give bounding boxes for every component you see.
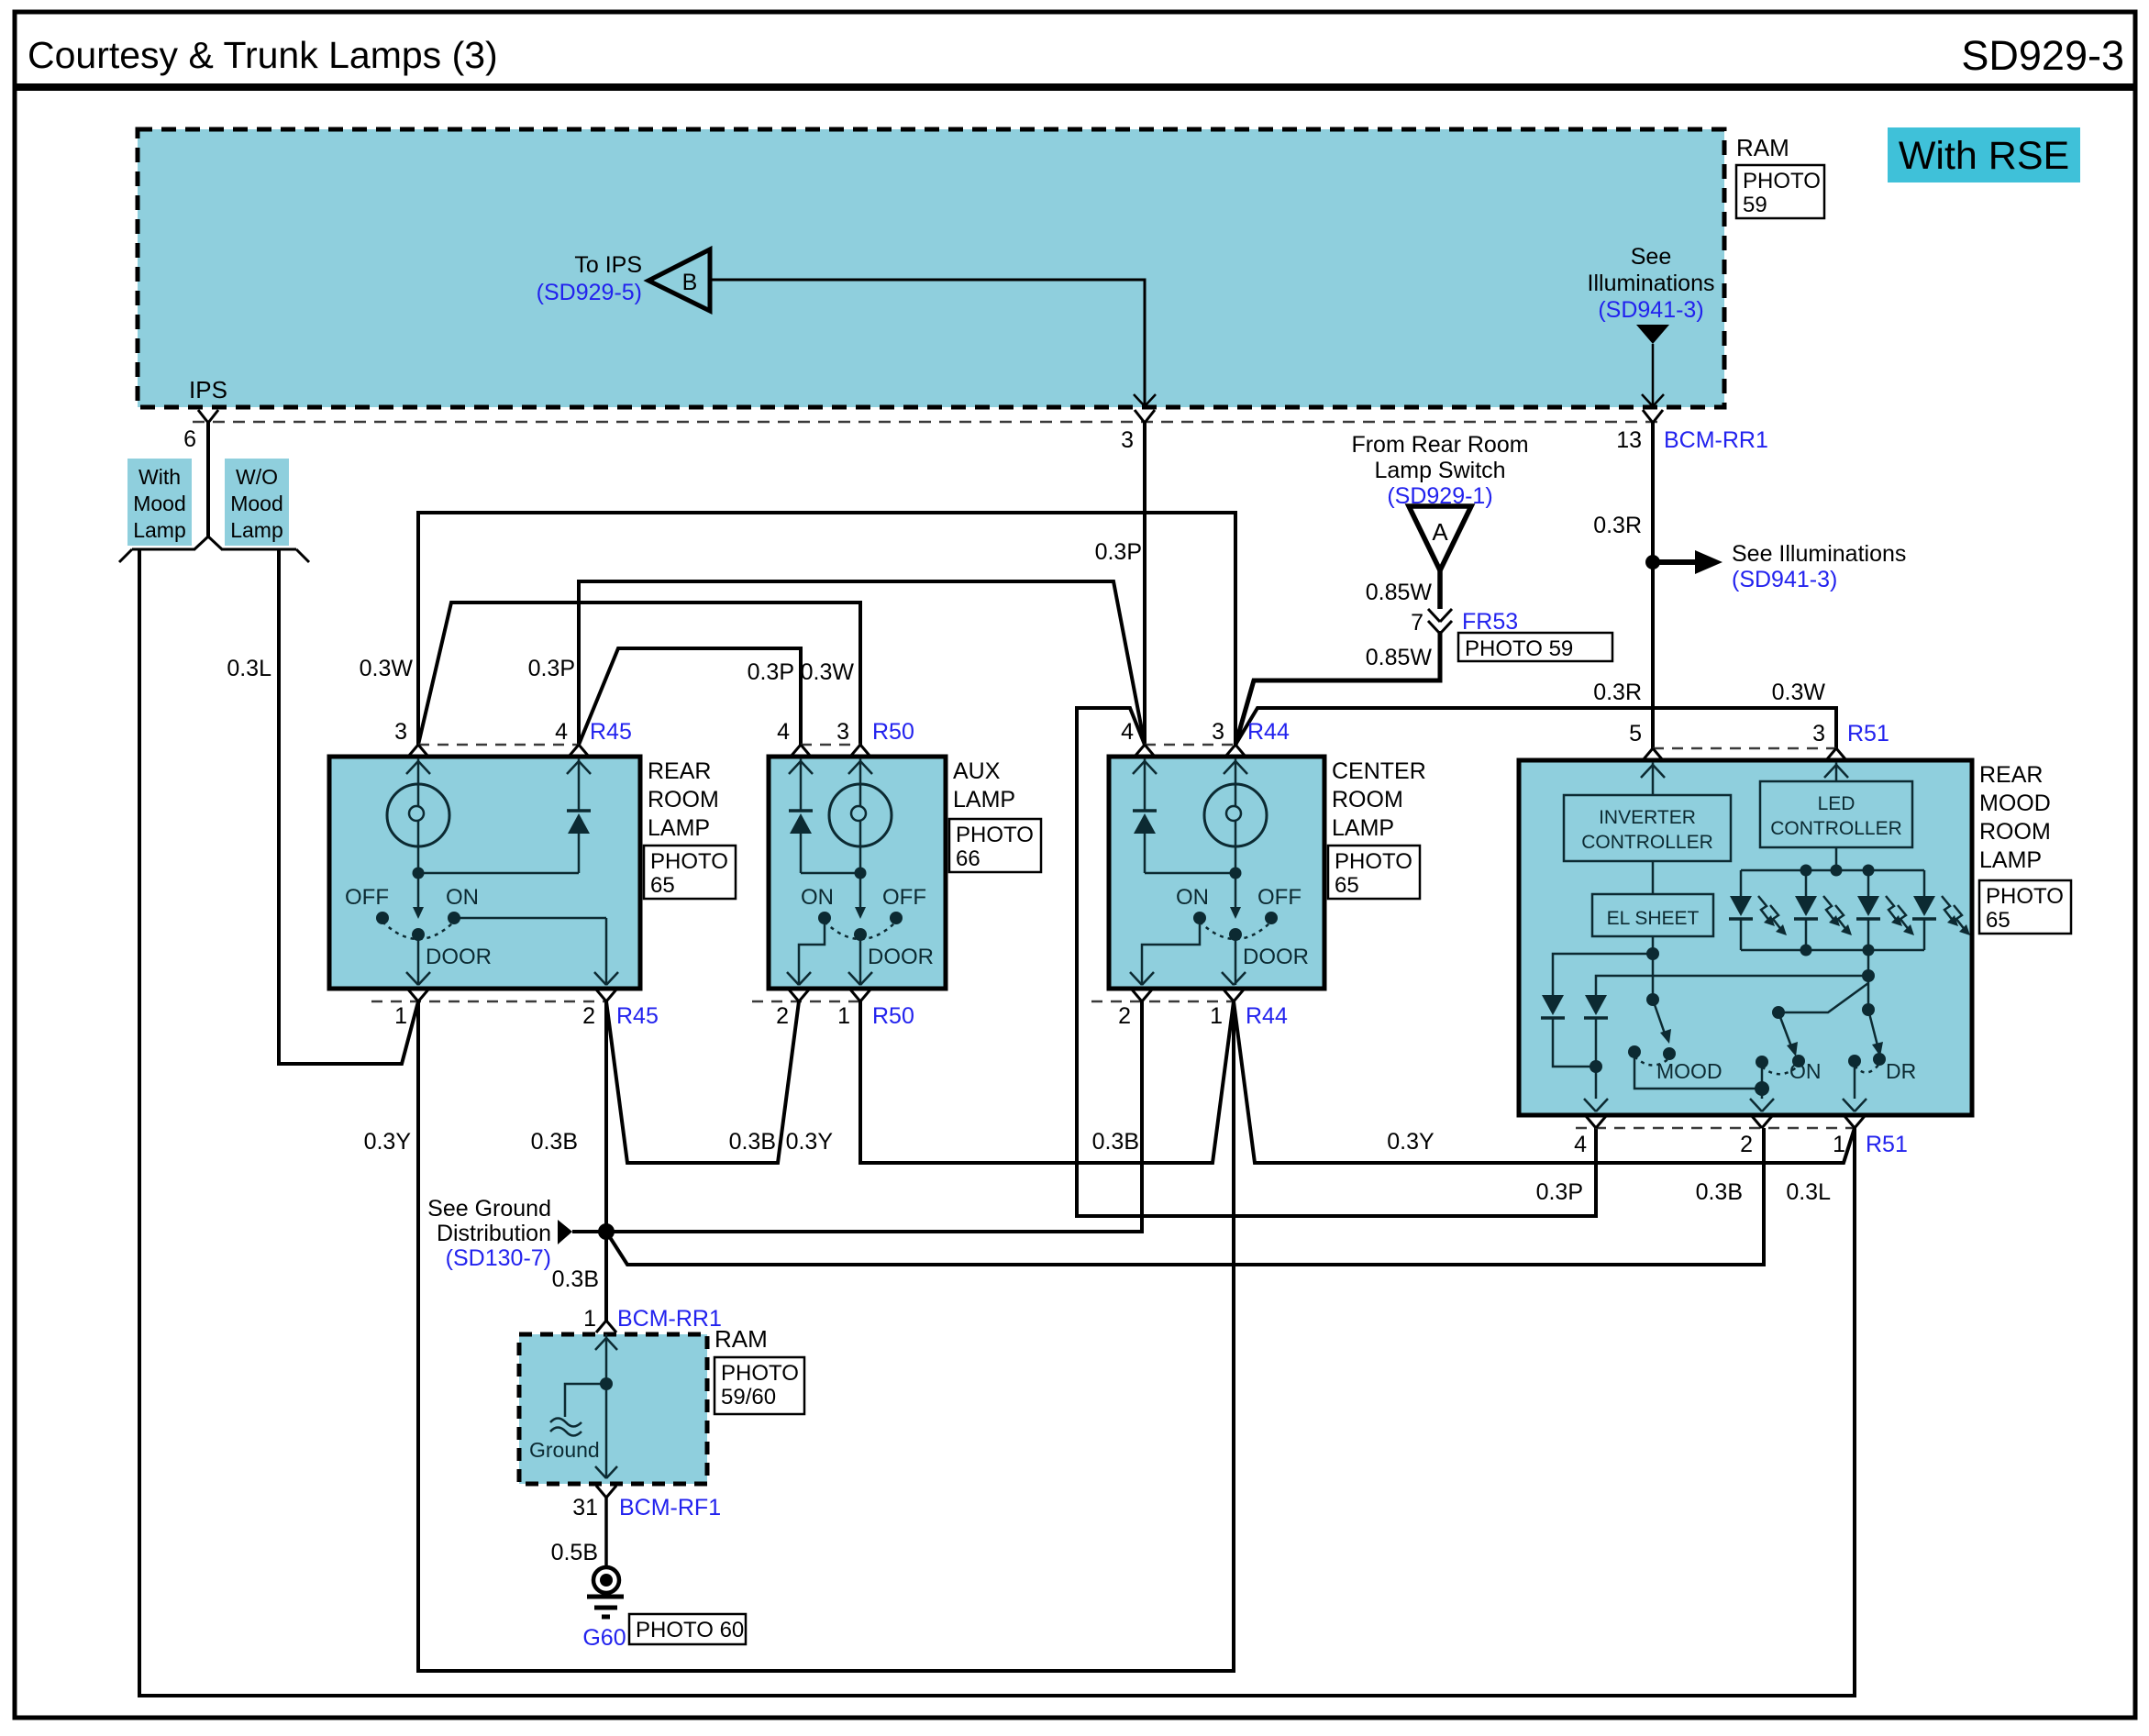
svg-text:Courtesy & Trunk Lamps (3): Courtesy & Trunk Lamps (3) xyxy=(28,34,498,76)
svg-text:EL SHEET: EL SHEET xyxy=(1607,908,1700,929)
svg-text:OFF: OFF xyxy=(882,885,926,910)
lamp CENTER ROOM LAMP (R44) xyxy=(1109,757,1426,989)
svg-text:3: 3 xyxy=(1121,427,1134,453)
svg-text:DOOR: DOOR xyxy=(1243,945,1309,969)
svg-text:R51: R51 xyxy=(1847,721,1889,746)
svg-text:5: 5 xyxy=(1629,721,1642,746)
svg-text:BCM-RR1: BCM-RR1 xyxy=(617,1306,722,1332)
switch DOOR AUX LAMP xyxy=(799,873,934,985)
connector BCM-RR1 pin 1 (top of ground box) xyxy=(595,1321,617,1350)
wire 0.3B R44 pin 2 to ground junction xyxy=(606,1001,1142,1232)
svg-text:SD929-3: SD929-3 xyxy=(1961,32,2124,79)
connector R45 bottom pins 1 and 2 xyxy=(371,972,659,1029)
svg-text:0.3B: 0.3B xyxy=(1092,1129,1139,1155)
svg-text:B: B xyxy=(682,270,698,295)
junction EL SHEET output xyxy=(1646,947,1659,960)
diode AUX LAMP xyxy=(789,758,860,873)
wire With Mood Lamp branch to R51 pin 1 (bottom 0.3L bus) xyxy=(139,549,1855,1696)
svg-text:0.3P: 0.3P xyxy=(1095,539,1142,565)
svg-text:ROOM: ROOM xyxy=(1979,819,2051,845)
LED array with controller buses xyxy=(1729,847,1970,956)
wire 0.3W R45 pin 3 to R44 pin 3 xyxy=(360,513,1235,745)
svg-text:See: See xyxy=(1631,244,1671,270)
switch DR xyxy=(1848,1003,1916,1099)
svg-text:R44: R44 xyxy=(1246,1003,1288,1029)
svg-text:R44: R44 xyxy=(1247,719,1290,745)
svg-text:DOOR: DOOR xyxy=(426,945,492,969)
svg-text:31: 31 xyxy=(572,1495,598,1520)
wire 0.3Y R45 pin 1 bottom bus to R44 pin 1 xyxy=(364,1001,1234,1671)
svg-text:1: 1 xyxy=(1833,1132,1845,1157)
bulb CENTER ROOM LAMP xyxy=(1204,758,1267,879)
svg-text:0.3W: 0.3W xyxy=(801,659,855,685)
arrow See Illuminations (SD941-3) right xyxy=(1653,541,1906,592)
svg-text:With: With xyxy=(138,465,181,489)
svg-text:(SD130-7): (SD130-7) xyxy=(446,1245,551,1271)
svg-text:OFF: OFF xyxy=(1257,885,1302,910)
module RAM (with IPS) dashed box xyxy=(138,129,1824,407)
svg-text:(SD941-3): (SD941-3) xyxy=(1732,567,1837,592)
svg-text:LED: LED xyxy=(1818,793,1855,814)
svg-text:CENTER: CENTER xyxy=(1332,758,1426,784)
svg-text:ON: ON xyxy=(1176,885,1209,910)
svg-text:(SD941-3): (SD941-3) xyxy=(1598,297,1703,323)
wire from B triangle to IPS pin 3 xyxy=(710,280,1156,406)
connector R50 top pins 4 and 3 xyxy=(777,719,914,774)
svg-text:AUX: AUX xyxy=(953,758,1001,784)
block LED CONTROLLER xyxy=(1760,762,1912,847)
lamp REAR ROOM LAMP (R45) xyxy=(329,757,736,989)
svg-text:0.5B: 0.5B xyxy=(551,1540,598,1565)
svg-text:3: 3 xyxy=(1812,721,1825,746)
svg-text:R51: R51 xyxy=(1866,1132,1908,1157)
wire 0.3R BCM-RR1 pin 13 to R51 pin 5 xyxy=(1593,423,1653,748)
connector R44 bottom pins 2 and 1 xyxy=(1091,972,1288,1029)
svg-text:1: 1 xyxy=(837,1003,850,1029)
svg-text:66: 66 xyxy=(956,846,980,871)
junction node on 0.3R wire xyxy=(1645,555,1660,569)
svg-text:0.3L: 0.3L xyxy=(227,656,271,681)
diode CENTER ROOM LAMP xyxy=(1133,758,1235,873)
svg-text:LAMP: LAMP xyxy=(1979,847,2042,873)
svg-text:ROOM: ROOM xyxy=(1332,787,1403,813)
switch DOOR REAR ROOM LAMP xyxy=(345,873,606,985)
wire 0.3P IPS pin 3 to R44 pin 4 xyxy=(1095,423,1145,745)
svg-text:PHOTO: PHOTO xyxy=(1335,849,1412,874)
svg-text:Lamp: Lamp xyxy=(230,518,283,542)
svg-text:0.3B: 0.3B xyxy=(1696,1179,1743,1205)
svg-text:2: 2 xyxy=(1118,1003,1131,1029)
svg-text:0.3W: 0.3W xyxy=(1772,680,1826,705)
svg-text:See Illuminations: See Illuminations xyxy=(1732,541,1906,567)
bulb AUX LAMP xyxy=(829,758,892,879)
svg-text:65: 65 xyxy=(650,873,675,898)
svg-text:0.3Y: 0.3Y xyxy=(364,1129,412,1155)
svg-text:See Ground: See Ground xyxy=(427,1196,551,1222)
svg-text:CONTROLLER: CONTROLLER xyxy=(1581,832,1713,853)
svg-text:1: 1 xyxy=(583,1306,596,1332)
switch MOOD xyxy=(1628,954,1762,1089)
node option W/O Mood Lamp xyxy=(225,459,289,546)
svg-text:ON: ON xyxy=(801,885,834,910)
wire 0.3Y R50 pin 1 to R44 pin 1 xyxy=(786,1001,1234,1163)
wire 0.3Y R44 pin 1 to R51 pin 1 xyxy=(1234,1001,1855,1163)
svg-text:PHOTO: PHOTO xyxy=(721,1361,799,1386)
svg-text:BCM-RF1: BCM-RF1 xyxy=(619,1495,721,1520)
diode D2 (LED branch) REAR MOOD LAMP xyxy=(1584,976,1868,1099)
svg-text:MOOD: MOOD xyxy=(1979,791,2051,816)
bulb REAR ROOM LAMP xyxy=(387,758,449,879)
svg-text:W/O: W/O xyxy=(236,465,278,489)
svg-text:PHOTO: PHOTO xyxy=(650,849,728,874)
junction ground distribution node xyxy=(598,1223,615,1240)
connector R51 bottom pins 4, 2, 1 xyxy=(1574,1099,1908,1157)
svg-text:Lamp Switch: Lamp Switch xyxy=(1374,458,1505,483)
svg-text:65: 65 xyxy=(1335,873,1359,898)
svg-text:LAMP: LAMP xyxy=(953,787,1015,813)
svg-text:0.3Y: 0.3Y xyxy=(1387,1129,1435,1155)
svg-text:OFF: OFF xyxy=(345,885,389,910)
junction LED bus to switches xyxy=(1862,950,1875,1010)
connector R44 top pins 4 and 3 xyxy=(1121,719,1290,774)
wire 0.3B R45 pin 2 to R50 pin 2 xyxy=(531,1001,799,1163)
svg-text:DOOR: DOOR xyxy=(868,945,934,969)
svg-text:2: 2 xyxy=(582,1003,595,1029)
wire 0.3B ground junction to R51 pin 2 xyxy=(606,1128,1764,1265)
wire 0.3L W/O Mood Lamp branch to R45 pin 1 xyxy=(227,549,418,1064)
svg-text:Lamp: Lamp xyxy=(133,518,186,542)
svg-text:INVERTER: INVERTER xyxy=(1599,807,1696,828)
wire 0.3P R45 pin 4 to R50 pin 4 xyxy=(579,648,801,745)
svg-text:A: A xyxy=(1432,518,1448,546)
wire 0.3W R45 pin 3 to R50 pin 3 xyxy=(418,603,860,745)
svg-text:0.3P: 0.3P xyxy=(748,659,794,685)
svg-text:0.3P: 0.3P xyxy=(1536,1179,1583,1205)
svg-text:FR53: FR53 xyxy=(1462,609,1518,635)
wire IPS pin 6 option split xyxy=(119,423,309,562)
svg-text:59/60: 59/60 xyxy=(721,1385,776,1410)
connector line IPS / BCM-RR1 (pins 6, 3, 13) xyxy=(183,410,1768,453)
svg-text:RAM: RAM xyxy=(714,1325,768,1353)
svg-text:6: 6 xyxy=(183,426,196,452)
wire 0.3B ground junction to BCM-RR1 pin 1 xyxy=(552,1232,722,1332)
svg-text:LAMP: LAMP xyxy=(1332,815,1394,841)
svg-text:CONTROLLER: CONTROLLER xyxy=(1770,818,1902,839)
svg-text:R45: R45 xyxy=(616,1003,659,1029)
wire 0.85W FR53 to R44 pin 3 xyxy=(1235,631,1440,745)
svg-text:G60: G60 xyxy=(582,1625,626,1651)
ground G60 xyxy=(582,1567,746,1651)
svg-text:0.3B: 0.3B xyxy=(729,1129,776,1155)
svg-text:Distribution: Distribution xyxy=(437,1221,551,1246)
switch ON xyxy=(1755,983,1868,1099)
svg-text:0.3L: 0.3L xyxy=(1786,1179,1831,1205)
svg-text:0.85W: 0.85W xyxy=(1366,645,1433,670)
arrow A From Rear Room Lamp Switch (SD929-1) xyxy=(1351,432,1528,570)
diode D1 (EL branch) REAR MOOD LAMP xyxy=(1541,954,1653,1067)
svg-text:3: 3 xyxy=(1212,719,1224,745)
svg-text:0.3R: 0.3R xyxy=(1593,513,1642,538)
block INVERTER CONTROLLER xyxy=(1564,762,1731,861)
arrow See Illuminations (SD941-3) inside RAM xyxy=(1588,244,1715,406)
connector R51 top pins 5 and 3 xyxy=(1629,721,1889,778)
connector R50 bottom pins 2 and 1 xyxy=(752,972,914,1029)
svg-text:3: 3 xyxy=(394,719,407,745)
svg-text:Illuminations: Illuminations xyxy=(1588,271,1715,296)
svg-text:0.3B: 0.3B xyxy=(552,1266,599,1292)
svg-text:DR: DR xyxy=(1886,1059,1916,1083)
svg-text:1: 1 xyxy=(394,1003,407,1029)
svg-text:65: 65 xyxy=(1986,908,2011,933)
svg-text:To IPS: To IPS xyxy=(574,252,642,278)
svg-text:MOOD: MOOD xyxy=(1656,1059,1723,1083)
svg-text:REAR: REAR xyxy=(648,758,711,784)
svg-text:BCM-RR1: BCM-RR1 xyxy=(1664,427,1768,453)
lamp REAR MOOD ROOM LAMP (R51) xyxy=(1519,760,2071,1115)
svg-text:Mood: Mood xyxy=(133,492,186,515)
svg-text:4: 4 xyxy=(1121,719,1134,745)
svg-text:PHOTO: PHOTO xyxy=(1743,169,1821,194)
svg-text:PHOTO: PHOTO xyxy=(1986,884,2064,909)
svg-text:1: 1 xyxy=(1210,1003,1223,1029)
arrow B To IPS (SD929-5) xyxy=(537,249,710,311)
svg-text:13: 13 xyxy=(1616,427,1642,453)
wire 0.3P R44 pin 4 to R51 pin 4 xyxy=(1077,708,1596,1216)
svg-text:REAR: REAR xyxy=(1979,762,2043,788)
svg-text:0.85W: 0.85W xyxy=(1366,580,1433,605)
lamp AUX LAMP (R50) xyxy=(769,757,1041,989)
connector BCM-RF1 pin 31 (bottom of ground box) xyxy=(572,1486,721,1520)
svg-text:0.3W: 0.3W xyxy=(360,656,414,681)
module RAM ground box xyxy=(519,1325,804,1484)
svg-text:R50: R50 xyxy=(872,1003,914,1029)
svg-text:LAMP: LAMP xyxy=(648,815,710,841)
wire 0.5B to ground G60 xyxy=(551,1498,606,1567)
ground symbol inside RAM xyxy=(529,1334,617,1478)
svg-text:With RSE: With RSE xyxy=(1899,134,2069,178)
svg-text:0.3P: 0.3P xyxy=(528,656,575,681)
node option With Mood Lamp xyxy=(127,459,192,546)
svg-text:0.3R: 0.3R xyxy=(1593,680,1642,705)
svg-text:R50: R50 xyxy=(872,719,914,745)
svg-text:0.3Y: 0.3Y xyxy=(786,1129,834,1155)
svg-text:59: 59 xyxy=(1743,193,1767,217)
svg-text:2: 2 xyxy=(776,1003,789,1029)
svg-text:2: 2 xyxy=(1740,1132,1753,1157)
wire 0.3P R45 pin 4 bus to R44 pin 4 xyxy=(528,581,1145,745)
switch DOOR CENTER ROOM LAMP xyxy=(1142,873,1309,985)
svg-text:0.3B: 0.3B xyxy=(531,1129,578,1155)
svg-text:PHOTO 60: PHOTO 60 xyxy=(636,1618,744,1642)
svg-text:PHOTO 59: PHOTO 59 xyxy=(1465,636,1573,661)
svg-text:R45: R45 xyxy=(590,719,632,745)
svg-text:From Rear Room: From Rear Room xyxy=(1351,432,1528,458)
svg-text:PHOTO: PHOTO xyxy=(956,823,1034,847)
svg-text:IPS: IPS xyxy=(189,376,227,404)
svg-text:ON: ON xyxy=(446,885,479,910)
svg-text:RAM: RAM xyxy=(1736,134,1789,161)
wire 0.3W R44 pin 3 to R51 pin 3 xyxy=(1235,680,1836,748)
arrow See Ground Distribution (SD130-7) xyxy=(427,1196,606,1271)
connector FR53 pin 7 xyxy=(1366,570,1612,670)
svg-text:4: 4 xyxy=(555,719,568,745)
svg-text:7: 7 xyxy=(1411,610,1423,636)
svg-text:Mood: Mood xyxy=(230,492,283,515)
svg-text:ON: ON xyxy=(1789,1059,1822,1083)
diode REAR ROOM LAMP xyxy=(418,758,591,873)
svg-text:3: 3 xyxy=(836,719,849,745)
svg-text:4: 4 xyxy=(1574,1132,1587,1157)
svg-text:4: 4 xyxy=(777,719,790,745)
block EL SHEET xyxy=(1592,861,1713,954)
connector R45 top pins 3 and 4 xyxy=(394,719,632,774)
svg-text:Ground: Ground xyxy=(529,1438,600,1462)
svg-text:(SD929-5): (SD929-5) xyxy=(537,280,642,305)
note With RSE xyxy=(1888,127,2080,182)
svg-text:ROOM: ROOM xyxy=(648,787,719,813)
wire 0.3B R45 pin 2 down to ground junction xyxy=(604,1001,608,1232)
